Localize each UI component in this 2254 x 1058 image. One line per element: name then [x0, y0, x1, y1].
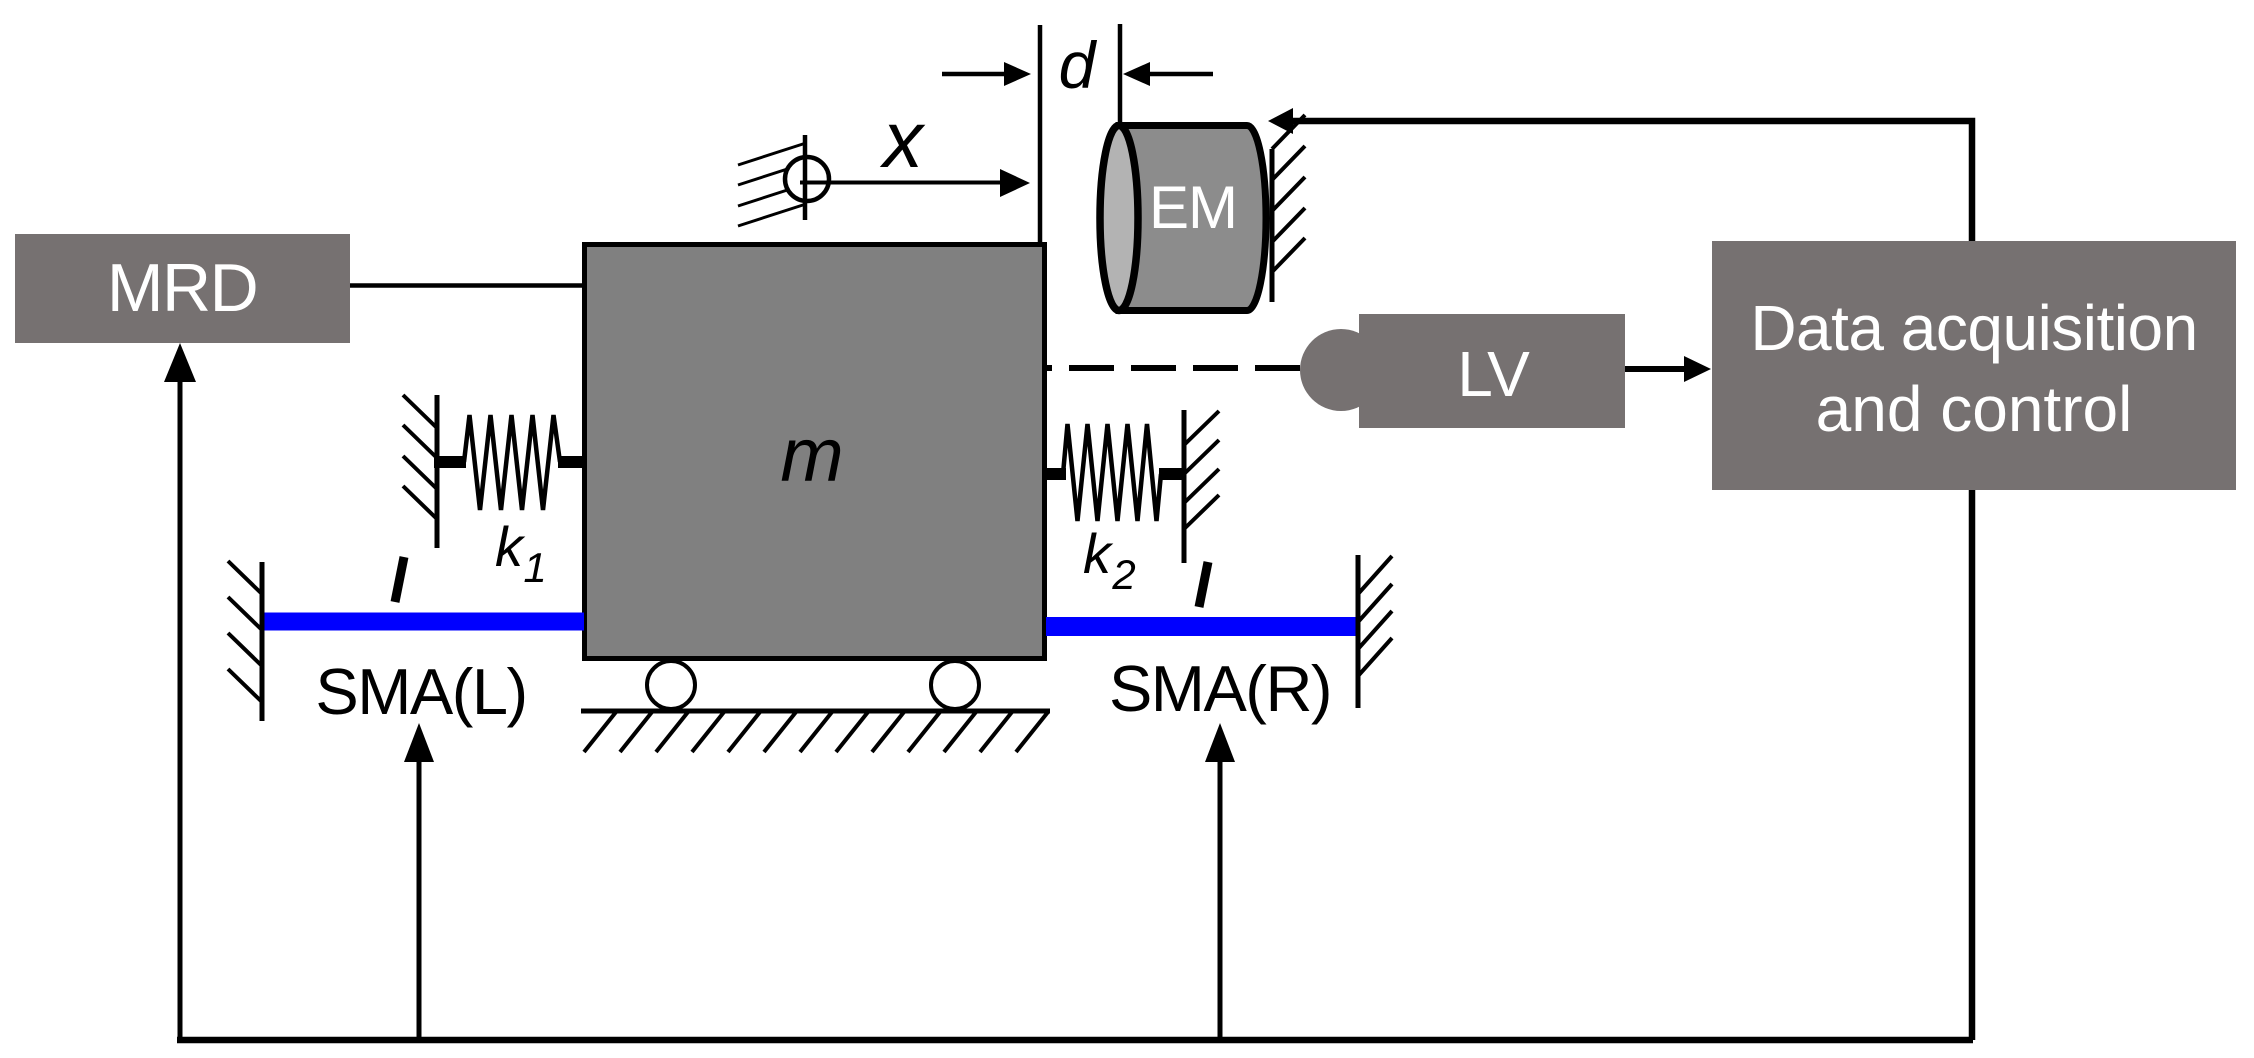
EM left edge guide line: [1118, 24, 1123, 122]
svg-text:SMA(R): SMA(R): [1109, 652, 1331, 725]
MRD box: [15, 234, 350, 343]
riser to SMA(L): [404, 723, 434, 1040]
LV cap: [1300, 329, 1382, 411]
svg-text:and control: and control: [1816, 373, 2133, 445]
x reference hatching: [738, 143, 806, 226]
spring k2 wall: [1184, 410, 1219, 563]
Data acquisition box: [1712, 241, 2236, 490]
arrowhead into EM: [1268, 108, 1293, 134]
SMA(L) blue wire: [262, 613, 584, 631]
svg-text:EM: EM: [1149, 174, 1237, 241]
svg-text:x: x: [879, 95, 926, 184]
svg-text:d: d: [1059, 28, 1098, 102]
svg-text:MRD: MRD: [107, 250, 257, 326]
electromagnet EM left cap: [1100, 126, 1138, 311]
bottom bus wire: [177, 1037, 1973, 1044]
roller right: [931, 661, 979, 709]
arrow LV to Data box: [1625, 356, 1711, 382]
spring k1 wall: [403, 395, 437, 548]
riser to SMA(R): [1205, 723, 1235, 1040]
svg-text:LV: LV: [1457, 338, 1530, 410]
svg-text:k: k: [495, 515, 526, 578]
wire MRD to mass: [350, 283, 591, 288]
x reference circle: [785, 157, 829, 201]
label l right: [1199, 562, 1208, 607]
svg-text:2: 2: [1111, 551, 1135, 598]
dashed laser line: [1047, 365, 1307, 371]
svg-text:SMA(L): SMA(L): [315, 655, 526, 728]
mass m: [585, 245, 1045, 659]
wall hatching behind EM: [1272, 115, 1305, 302]
SMA(R) blue wire: [1046, 617, 1357, 636]
svg-text:m: m: [780, 413, 843, 498]
label k1: [495, 515, 547, 591]
spring k2: [1045, 424, 1184, 521]
wire data box bottom: [1969, 490, 1976, 1040]
spring k1: [434, 415, 584, 510]
SMA right wall: [1358, 555, 1392, 708]
x reference post: [803, 135, 808, 220]
svg-text:1: 1: [523, 544, 546, 591]
svg-text:k: k: [1083, 522, 1114, 585]
label k2: [1083, 522, 1136, 598]
ground: [581, 711, 1050, 752]
LV box: [1359, 314, 1625, 428]
d dimension arrow right: [1123, 62, 1213, 86]
riser to MRD: [164, 343, 196, 1040]
mass right edge guide line: [1038, 25, 1043, 244]
SMA left wall: [228, 561, 262, 721]
roller left: [647, 661, 695, 709]
electromagnet EM cylinder body: [1119, 126, 1266, 311]
label l left: [395, 557, 404, 602]
svg-text:Data acquisition: Data acquisition: [1750, 292, 2197, 364]
top feedback wire to EM: [1290, 121, 1972, 241]
x arrow: [800, 169, 1030, 197]
d dimension arrow left: [942, 62, 1031, 86]
